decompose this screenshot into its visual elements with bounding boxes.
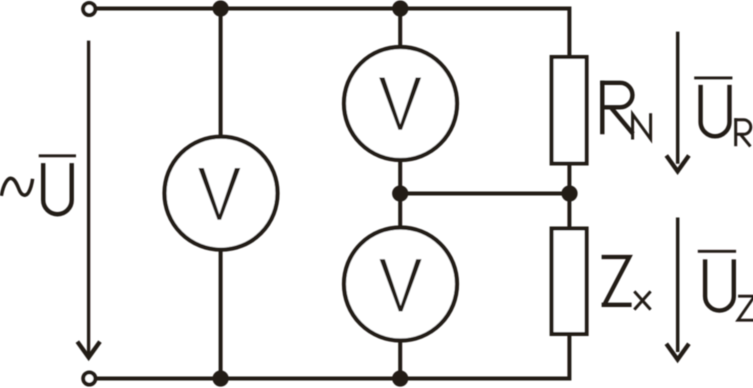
wire RN to middle node [567, 164, 571, 194]
label V3 letter V [380, 259, 422, 311]
voltmeter V2 circle [344, 47, 457, 160]
wire top rail [97, 9, 570, 56]
label ~U overbar [39, 154, 76, 157]
arrow UR shaft [676, 32, 680, 164]
label V2 letter V [379, 78, 421, 130]
wire middle horizontal (node to node) [400, 192, 569, 196]
voltmeter V1 circle [165, 137, 278, 250]
wire middle branch upper (to voltmeter V2) [398, 9, 402, 48]
junction node middle-left [392, 185, 408, 201]
label ~U letter U [43, 163, 71, 214]
wire left branch lower (from voltmeter V1) [219, 250, 223, 379]
label UZ letter U [705, 259, 734, 310]
junction node bottom-left rail [213, 370, 229, 386]
impedance Zx body [552, 229, 587, 335]
resistor RN body [552, 57, 587, 164]
wire V3 to bottom rail [398, 339, 402, 379]
wire left branch upper (to voltmeter V1) [219, 9, 223, 139]
label UR overbar [694, 76, 732, 79]
label RN subscript N [633, 113, 651, 139]
junction node bottom-middle rail [392, 370, 408, 386]
voltmeter V3 circle [344, 228, 457, 341]
source arrow ~U shaft [87, 41, 90, 355]
label Zx subscript x [634, 291, 650, 309]
terminal top-left [83, 3, 95, 15]
label V1 letter V [198, 168, 240, 220]
label UZ overbar [698, 250, 736, 253]
label RN letter R [600, 81, 633, 135]
wire V2 to middle node [398, 159, 402, 194]
arrow UZ head [666, 344, 689, 360]
label Zx letter Z [602, 257, 632, 305]
terminal bottom-left [83, 372, 95, 384]
wire middle node to Zx [567, 194, 571, 229]
junction node middle-right [561, 185, 577, 201]
wire middle node to voltmeter V3 [398, 194, 402, 230]
label ~U tilde [1, 178, 32, 196]
arrow UZ shaft [676, 218, 680, 353]
wire bottom rail [97, 335, 570, 379]
junction node top-left rail [213, 0, 229, 16]
label UR letter U [701, 85, 730, 136]
source arrow ~U head [77, 342, 100, 358]
arrow UR head [666, 156, 689, 172]
label UR subscript R [734, 118, 751, 146]
label UZ subscript Z [738, 296, 753, 320]
junction node top-middle rail [392, 0, 408, 16]
